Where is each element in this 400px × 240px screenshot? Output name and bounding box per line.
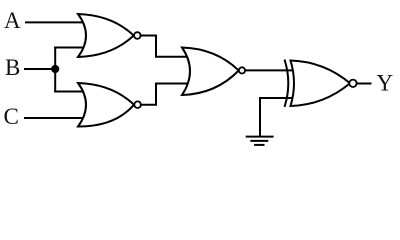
NOR gate G2 output bubble [134, 101, 141, 108]
NOR gate G1 output bubble [134, 32, 141, 39]
NOR gate G3 body (middle) [182, 48, 239, 96]
wire B branch to NOR1 lower input [55, 47, 84, 49]
ground symbol bars [247, 136, 273, 138]
wire G2 output to NOR3 bottom input [141, 84, 188, 105]
wire B to junction [25, 68, 55, 70]
XNOR gate G4 output bubble [349, 80, 356, 87]
svg-text:A: A [4, 8, 21, 33]
XNOR gate G4 extra input arc [285, 61, 289, 107]
wire G4 output to Y [357, 83, 371, 85]
NOR gate G2 body (bottom) [78, 83, 134, 127]
wire A to NOR1 top input [26, 21, 84, 23]
wire G1 output to NOR3 top input [141, 36, 188, 57]
XNOR gate G4 body [291, 61, 351, 107]
wire C to NOR2 lower input [25, 117, 84, 119]
wire vertical B branch [54, 48, 56, 92]
wire B branch to NOR2 upper input [55, 91, 84, 93]
svg-text:C: C [4, 104, 19, 129]
wire G3 output to XNOR top input [245, 69, 294, 71]
svg-text:B: B [5, 55, 20, 80]
node junction dot on B [51, 65, 59, 73]
NOR gate G3 output bubble [239, 67, 245, 73]
svg-text:Y: Y [377, 70, 394, 95]
wire ground to XNOR bottom input [260, 98, 294, 136]
NOR gate G1 body (top) [78, 14, 134, 57]
